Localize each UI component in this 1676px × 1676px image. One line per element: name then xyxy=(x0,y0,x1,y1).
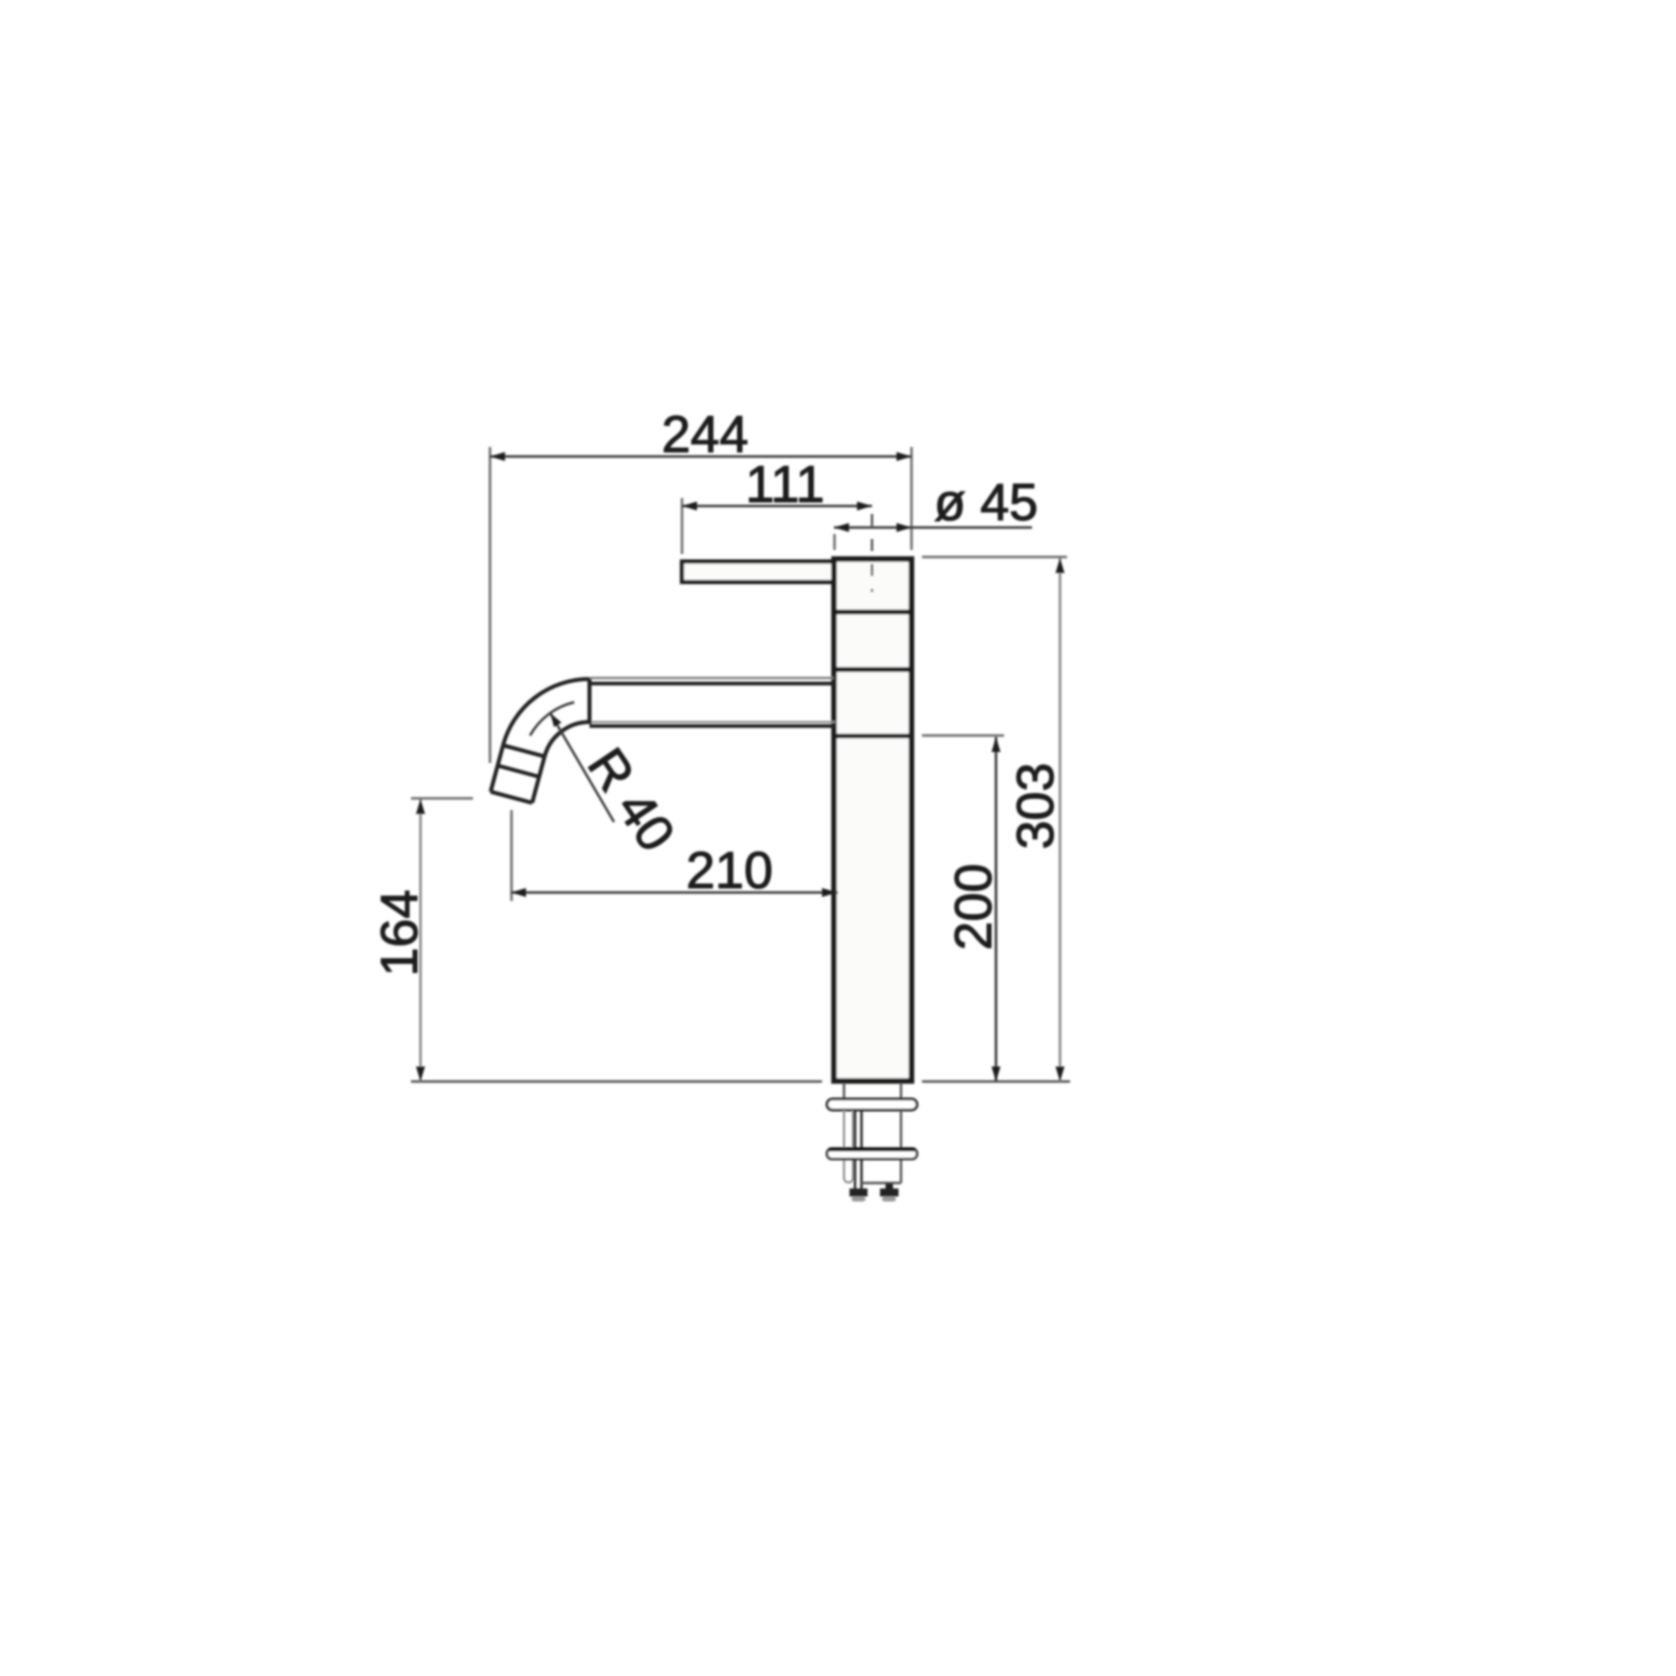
dim 200 extension line top xyxy=(922,734,1004,737)
dim 200 arrow top xyxy=(992,737,1001,752)
left mounting nut xyxy=(850,1189,868,1197)
nozzle tip segment xyxy=(491,766,540,803)
body joint line 1 xyxy=(834,610,912,615)
nozzle tip face xyxy=(491,792,533,803)
dim 111 extension line left xyxy=(681,498,684,554)
spout tube top edge xyxy=(590,677,835,679)
lower washer top edge xyxy=(829,1148,915,1152)
dim 244 extension line left xyxy=(489,447,492,763)
radius R40 leader line xyxy=(551,714,615,823)
radius R40 annotation arc xyxy=(530,702,574,735)
body joint line 2 xyxy=(834,667,912,672)
upper washer xyxy=(827,1099,917,1110)
dim 303 extension line top xyxy=(922,556,1067,559)
lower washer xyxy=(827,1149,917,1160)
svg-text:ø 45: ø 45 xyxy=(934,474,1038,532)
countertop baseline right segment xyxy=(922,1080,1070,1083)
dim diameter 45 line xyxy=(834,526,1032,529)
dim 303 line xyxy=(1059,558,1062,1082)
svg-text:164: 164 xyxy=(371,890,429,977)
dim 164 line xyxy=(419,799,422,1082)
spout tube bottom edge xyxy=(590,721,837,723)
nozzle joint line 1 xyxy=(503,745,545,756)
dim 244 extension line right xyxy=(910,447,913,550)
spout tube end joint xyxy=(588,679,592,724)
dim 303 arrow top xyxy=(1056,558,1065,573)
svg-text:111: 111 xyxy=(745,456,824,514)
dim 210 arrow right xyxy=(822,888,837,897)
shank bottom edge xyxy=(862,1182,902,1184)
faucet vertical centerline (dashed) xyxy=(871,514,873,592)
dim 210 arrow left xyxy=(511,888,526,897)
dim 244 arrow left xyxy=(490,452,505,461)
dim 303 arrow bottom xyxy=(1056,1067,1065,1082)
body joint line 3 xyxy=(834,734,912,739)
dim 210 extension line left xyxy=(510,810,513,901)
dim 244 line xyxy=(490,455,912,458)
dim diameter 45 extension stub xyxy=(833,534,836,550)
dim 200 line xyxy=(995,737,998,1082)
right mounting nut xyxy=(880,1189,899,1197)
nozzle joint line 2 xyxy=(498,766,540,777)
dim 200 arrow bottom xyxy=(992,1067,1001,1082)
svg-text:303: 303 xyxy=(1007,763,1065,850)
dim 164 extension line top xyxy=(411,797,473,800)
dim 164 arrow top xyxy=(416,799,425,814)
threaded studs xyxy=(854,1110,856,1189)
shank lower right edge xyxy=(900,1110,902,1183)
threaded rod (gray tube) xyxy=(844,1110,853,1183)
dim 244 arrow right xyxy=(897,452,912,461)
svg-text:244: 244 xyxy=(662,406,749,464)
right nut stem xyxy=(886,1184,894,1189)
dim diameter 45 arrow left xyxy=(834,523,849,532)
nozzle ring segment xyxy=(498,745,545,776)
svg-text:210: 210 xyxy=(686,842,773,900)
faucet body xyxy=(834,559,912,1081)
dim 111 arrow left xyxy=(682,502,697,511)
handle lever xyxy=(682,562,834,583)
dim 111 line xyxy=(682,505,872,508)
radius R40 leader arrow xyxy=(551,714,562,728)
dim 210 line xyxy=(511,891,838,894)
spout bend inner arc xyxy=(545,722,590,756)
mounting shank xyxy=(843,1083,845,1099)
dim 111 arrow right xyxy=(857,502,872,511)
dim 164 arrow bottom xyxy=(416,1067,425,1082)
svg-text:200: 200 xyxy=(945,864,1003,951)
spout bend outer arc xyxy=(503,679,589,745)
countertop baseline left segment xyxy=(411,1080,822,1083)
dim diameter 45 arrow right xyxy=(897,523,912,532)
